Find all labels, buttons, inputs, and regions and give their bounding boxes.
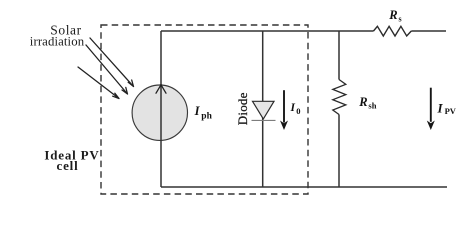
solar irradiation arrow 1 xyxy=(90,38,134,87)
wire: top bus left segment xyxy=(161,30,374,32)
current source Iph (circle) xyxy=(132,85,187,140)
wire: through current source xyxy=(160,84,162,141)
wire: left branch (current source) xyxy=(160,31,162,187)
svg-text:cell: cell xyxy=(57,158,79,173)
current arrow IPV xyxy=(427,88,435,130)
svg-text:s: s xyxy=(399,15,402,24)
wire: diode branch xyxy=(262,31,264,187)
wire: Rsh branch bottom xyxy=(338,115,340,188)
current arrow I0 xyxy=(280,90,288,130)
label Rsh xyxy=(358,95,376,111)
svg-text:I: I xyxy=(290,102,296,114)
wire: bottom bus xyxy=(161,186,447,188)
svg-text:R: R xyxy=(388,8,397,22)
svg-text:sh: sh xyxy=(368,101,376,111)
wire: Rsh branch top xyxy=(338,31,340,80)
label Rs xyxy=(388,8,401,24)
resistor Rs (zigzag) xyxy=(374,26,412,36)
label: Diode (rotated) xyxy=(235,92,250,125)
svg-text:R: R xyxy=(358,95,367,109)
label: Solar irradiation xyxy=(30,23,85,49)
resistor Rsh (zigzag) xyxy=(333,80,346,115)
diode cathode bar xyxy=(252,119,276,121)
svg-text:irradiation: irradiation xyxy=(30,35,85,49)
label: Ideal PV cell xyxy=(44,148,99,173)
current source arrow (up) xyxy=(156,85,166,93)
svg-text:I: I xyxy=(437,100,444,115)
svg-text:0: 0 xyxy=(296,106,300,116)
dashed boundary: ideal PV cell xyxy=(101,25,308,194)
solar irradiation arrow 3 xyxy=(78,67,119,99)
svg-text:PV: PV xyxy=(445,106,457,116)
svg-text:Diode: Diode xyxy=(235,92,250,125)
wire: top bus right segment xyxy=(411,30,446,32)
label IPV xyxy=(437,100,457,116)
svg-text:ph: ph xyxy=(201,111,212,121)
solar irradiation arrow 2 xyxy=(86,45,128,94)
diode D (triangle) xyxy=(253,101,275,119)
label Iph xyxy=(194,104,213,122)
label I0 xyxy=(290,102,301,116)
